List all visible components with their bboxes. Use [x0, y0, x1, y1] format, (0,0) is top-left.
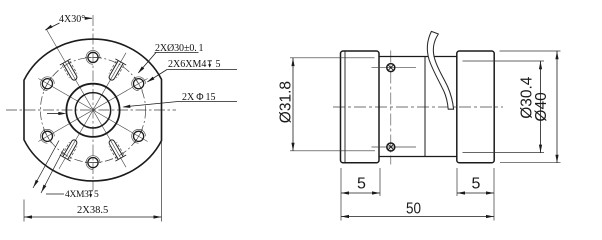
diagonal centerline 60deg A [38, 79, 147, 142]
svg-text:5: 5 [216, 59, 221, 70]
cable [427, 31, 453, 109]
dimension D31.8 [278, 58, 376, 151]
motor body [379, 56, 457, 58]
svg-text:Ø40: Ø40 [533, 92, 550, 122]
flange outline with flats [24, 39, 162, 181]
svg-text:5: 5 [94, 190, 99, 200]
centerline vertical [92, 15, 94, 190]
label 2X phi 15 [47, 92, 237, 115]
svg-text:2X6XM4: 2X6XM4 [168, 59, 206, 70]
dimension D40 [500, 51, 561, 163]
label 4XM3 depth 5 with leaders [32, 141, 99, 201]
left flange [341, 51, 380, 163]
opposite diameter arrow [47, 113, 60, 115]
bolt circle (dash-dot) [40, 57, 145, 162]
svg-text:Ø31.8: Ø31.8 [278, 81, 295, 123]
label 2X D30 +-0.1 [137, 43, 204, 75]
right flange [457, 51, 494, 163]
svg-text:5: 5 [357, 176, 366, 193]
hole M4 10oclock [42, 79, 52, 89]
dimension 50 [341, 201, 494, 219]
M3 slot lower-right [105, 137, 126, 161]
body section line [424, 57, 426, 157]
hole M4 4oclock [134, 131, 144, 141]
M3 slot upper-right [105, 59, 126, 83]
label 2X6XM4 depth 5 [146, 59, 237, 84]
dimension 5 right [457, 168, 494, 221]
svg-text:5: 5 [472, 176, 481, 193]
hole M4 8oclock [42, 131, 52, 141]
screw top [372, 67, 417, 69]
horizontal centerline [333, 106, 503, 108]
boss circle D30 [66, 84, 119, 137]
M3 slot upper-left [60, 59, 81, 83]
screw bottom [372, 146, 417, 148]
dimension 4X30deg [44, 14, 93, 32]
dimension 5 left [341, 168, 380, 221]
hole M4 2oclock [134, 79, 144, 89]
svg-text:50: 50 [406, 201, 421, 218]
diagonal centerline 30deg top-right to bottom-left [59, 53, 126, 169]
diagonal centerline 60deg B [38, 79, 147, 142]
M3 slot lower-left [60, 137, 81, 161]
dimension 2X38.5 [24, 142, 162, 222]
bore circle D15 [75, 93, 110, 128]
centerline horizontal [6, 109, 176, 111]
diagonal centerline 30deg top-left to bottom-right [47, 30, 127, 168]
svg-text:4XM3: 4XM3 [65, 190, 89, 200]
hole M4 bottom [88, 158, 98, 168]
svg-text:4X30°: 4X30° [59, 14, 85, 25]
hole M4 top [88, 52, 98, 62]
dimension D30.4 [463, 61, 545, 153]
svg-text:2X38.5: 2X38.5 [77, 205, 108, 216]
screws centerline vertical [390, 51, 392, 165]
